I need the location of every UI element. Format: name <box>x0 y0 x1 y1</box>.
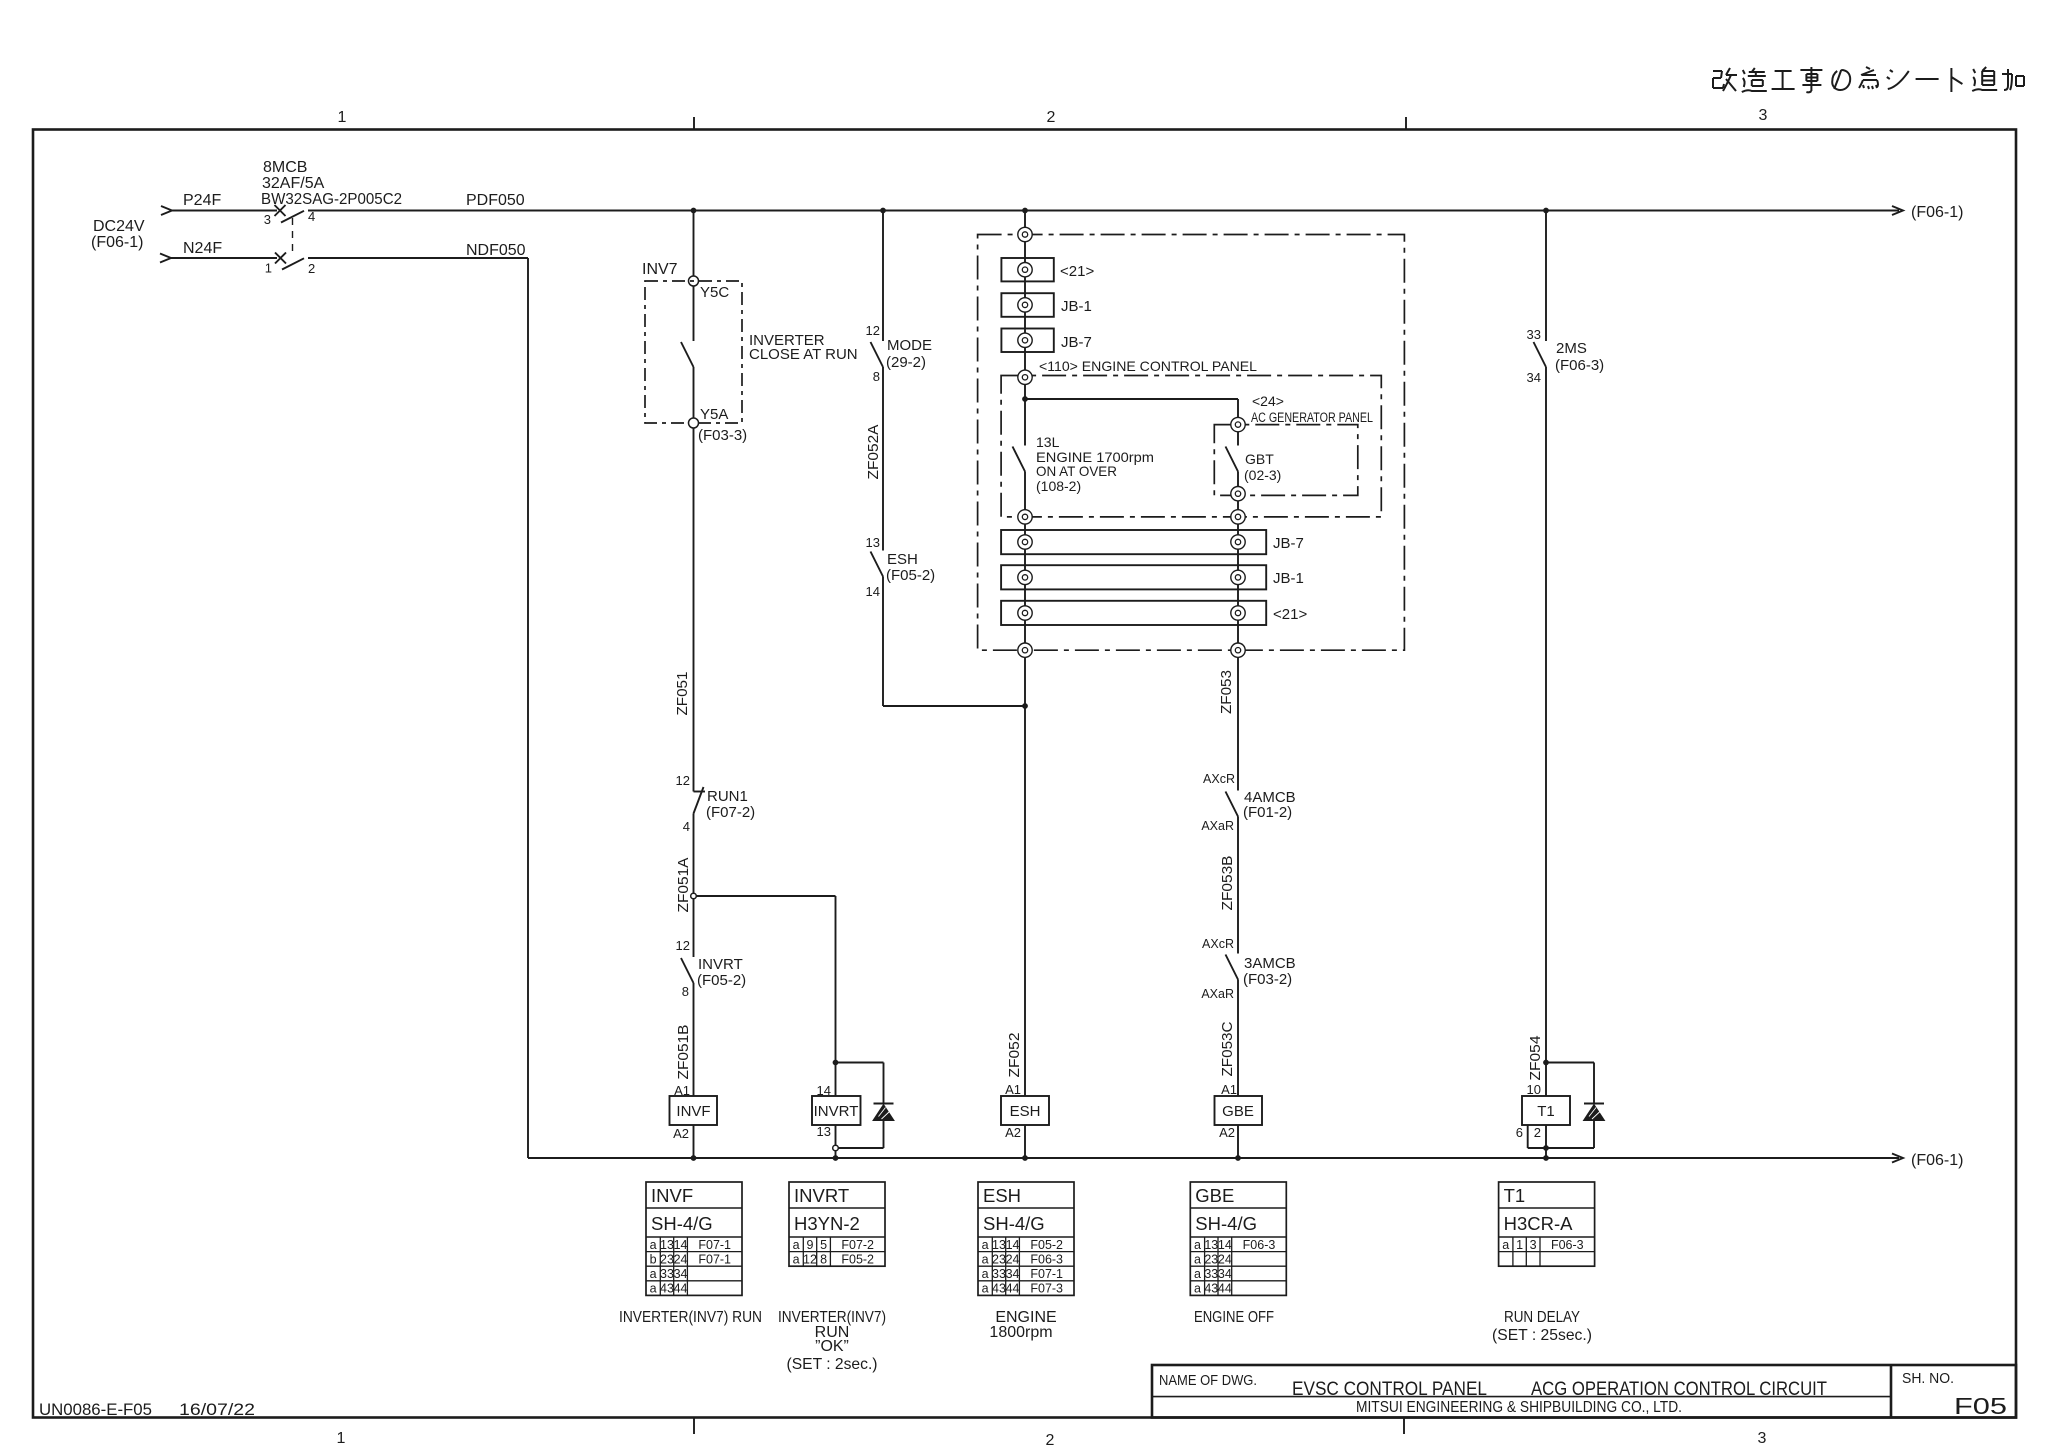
label INVERTER CLOSE AT RUN <box>749 332 858 363</box>
svg-text:ESH: ESH <box>983 1185 1021 1206</box>
table relay INVF <box>646 1182 742 1296</box>
net label N24F <box>183 240 222 257</box>
column label 1 bottom <box>337 1430 346 1447</box>
table relay INVRT <box>789 1182 885 1266</box>
wire ZF053B <box>1237 817 1239 954</box>
svg-text:(F06-1): (F06-1) <box>91 234 143 251</box>
terminal outer bottom left <box>1018 643 1032 657</box>
wire INVRT pin14 <box>835 1063 837 1097</box>
svg-text:INVRT: INVRT <box>794 1185 849 1206</box>
svg-text:INV7: INV7 <box>642 261 678 278</box>
svg-text:16/07/22: 16/07/22 <box>179 1400 255 1419</box>
svg-text:33: 33 <box>660 1267 674 1281</box>
svg-text:a: a <box>650 1282 657 1296</box>
svg-text:”OK”: ”OK” <box>815 1338 849 1355</box>
wire JB-7 to JB-1 long <box>1025 549 1238 570</box>
junction bottom bus x1238 <box>1235 1155 1241 1161</box>
svg-text:a: a <box>793 1238 800 1252</box>
junction bottom bus x1546 <box>1543 1155 1549 1161</box>
svg-text:ZF052: ZF052 <box>1006 1033 1023 1078</box>
wire PDF050 into panel <box>1024 211 1026 228</box>
wire ZF053 <box>1237 657 1239 790</box>
wire PDF050 to 2MS <box>1545 211 1547 342</box>
net label ZF051A <box>675 858 692 913</box>
title EVSC CONTROL PANEL <box>1292 1379 1487 1400</box>
net label NDF050 <box>466 242 526 259</box>
svg-text:a: a <box>1194 1282 1201 1296</box>
coil GBE pin A1 <box>1221 1082 1237 1097</box>
svg-text:2: 2 <box>1047 109 1056 126</box>
svg-text:a: a <box>650 1267 657 1281</box>
svg-text:(29-2): (29-2) <box>886 354 926 371</box>
net label ZF053B <box>1219 856 1236 911</box>
column label 3 bottom <box>1758 1430 1767 1447</box>
wire T1 pin2 to bus <box>1545 1125 1547 1158</box>
svg-text:10: 10 <box>1527 1082 1541 1097</box>
svg-text:24: 24 <box>1218 1252 1232 1266</box>
svg-text:GBE: GBE <box>1195 1185 1234 1206</box>
enclosure engine control panel dash-dot box <box>1001 376 1381 517</box>
wire ZF052 down <box>1024 657 1026 1096</box>
svg-text:34: 34 <box>1006 1267 1020 1281</box>
svg-text:3: 3 <box>264 212 271 227</box>
svg-text:(F06-1): (F06-1) <box>1911 204 1963 221</box>
svg-text:44: 44 <box>674 1282 688 1296</box>
coil T1 pin 2 <box>1534 1125 1541 1140</box>
svg-text:ZF051B: ZF051B <box>675 1025 692 1080</box>
table relay GBE <box>1190 1182 1286 1296</box>
title MITSUI ENGINEERING <box>1356 1399 1682 1416</box>
source label DC24V (F06-1) <box>91 218 145 251</box>
net label ZF052A <box>865 425 882 480</box>
column label 1 top <box>338 109 347 126</box>
svg-text:b: b <box>650 1252 657 1266</box>
net label ZF053C <box>1219 1021 1236 1076</box>
svg-text:a: a <box>982 1267 989 1281</box>
svg-text:NDF050: NDF050 <box>466 242 526 259</box>
wire N24F entry arrow <box>160 254 277 263</box>
svg-text:INVF: INVF <box>651 1185 693 1206</box>
svg-text:JB-1: JB-1 <box>1273 570 1304 587</box>
svg-text:INVERTER(INV7) RUN: INVERTER(INV7) RUN <box>619 1309 762 1326</box>
table relay T1 <box>1499 1182 1595 1266</box>
node ZF051A branch <box>691 893 697 899</box>
contact ESH (F05-2) self-hold NO <box>866 535 936 599</box>
wire diode branch INVRT top <box>836 1062 884 1064</box>
wire NDF050 segment <box>308 258 528 1158</box>
bottom bus arrow to (F06-1) <box>1892 1152 1963 1169</box>
svg-text:<24>: <24> <box>1252 393 1284 409</box>
junction 13L branch <box>1022 396 1028 402</box>
svg-text:GBT: GBT <box>1245 451 1274 467</box>
terminal box JB-1 top <box>1001 293 1091 317</box>
svg-text:ENGINE OFF: ENGINE OFF <box>1194 1309 1274 1326</box>
terminal engine panel bottom left <box>1018 510 1032 524</box>
svg-text:43: 43 <box>660 1282 674 1296</box>
svg-text:DC24V: DC24V <box>93 218 145 235</box>
svg-text:1800rpm: 1800rpm <box>989 1324 1052 1341</box>
diode T1 surge suppressor <box>1584 1063 1605 1149</box>
contact 3AMCB (F03-2) NO <box>1201 937 1295 1001</box>
contact MODE (29-2) NO <box>866 323 932 384</box>
svg-text:MITSUI ENGINEERING & SHIPBUILD: MITSUI ENGINEERING & SHIPBUILDING CO., L… <box>1356 1399 1682 1416</box>
svg-text:(SET : 2sec.): (SET : 2sec.) <box>787 1356 878 1373</box>
svg-text:34: 34 <box>1218 1267 1232 1281</box>
wire diode return T1 <box>1546 1147 1594 1149</box>
breaker 8MCB value labels <box>261 159 402 208</box>
wire ZF051A <box>693 818 695 896</box>
wire NDF050 bottom bus <box>528 1157 1899 1159</box>
svg-text:P24F: P24F <box>183 192 221 209</box>
svg-text:UN0086-E-F05: UN0086-E-F05 <box>39 1400 152 1419</box>
net label ZF051 <box>674 672 691 716</box>
table relay ESH <box>978 1182 1074 1296</box>
contact 13L NO <box>1013 399 1026 510</box>
svg-text:MODE: MODE <box>887 337 932 354</box>
junction T1 diode branch <box>1543 1060 1549 1066</box>
caption ENGINE 1800rpm <box>989 1309 1056 1341</box>
coil INVF pin A2 <box>673 1126 689 1141</box>
svg-text:NAME OF DWG.: NAME OF DWG. <box>1159 1372 1257 1389</box>
svg-text:34: 34 <box>674 1267 688 1281</box>
coil INVRT <box>812 1096 861 1125</box>
svg-text:23: 23 <box>1204 1252 1218 1266</box>
svg-text:3: 3 <box>1530 1238 1537 1252</box>
wire P24F entry arrow <box>161 206 277 215</box>
svg-text:T1: T1 <box>1504 1185 1526 1206</box>
svg-text:9: 9 <box>807 1238 814 1252</box>
svg-text:F06-3: F06-3 <box>1243 1238 1276 1252</box>
coil INVF pin A1 <box>674 1083 690 1098</box>
svg-text:13: 13 <box>660 1238 674 1252</box>
junction P24F x693 <box>691 208 697 214</box>
diode INVRT surge suppressor <box>873 1063 894 1149</box>
svg-text:ESH: ESH <box>1010 1103 1041 1120</box>
junction ESH rung <box>1022 703 1028 709</box>
svg-text:8MCB: 8MCB <box>263 159 307 176</box>
contact RUN1 (F07-2) NC <box>676 773 756 834</box>
svg-text:(108-2): (108-2) <box>1036 478 1081 494</box>
svg-text:33: 33 <box>1527 327 1541 342</box>
svg-text:AXaR: AXaR <box>1201 987 1234 1001</box>
wire GBE A2 to bus <box>1237 1125 1239 1158</box>
svg-text:JB-7: JB-7 <box>1061 334 1092 351</box>
svg-text:<21>: <21> <box>1060 263 1094 280</box>
terminal Y5C <box>689 276 730 301</box>
terminal box JB-7 top <box>1001 329 1091 353</box>
contact INVRT (F05-2) NO <box>676 899 747 999</box>
svg-text:3: 3 <box>1758 1430 1767 1447</box>
svg-text:(F03-2): (F03-2) <box>1243 971 1292 988</box>
column label 2 bottom <box>1046 1432 1055 1447</box>
terminal engine panel top <box>1018 370 1032 384</box>
svg-text:BW32SAG-2P005C2: BW32SAG-2P005C2 <box>261 191 402 208</box>
wire ZF051 <box>693 428 695 792</box>
svg-text:Y5A: Y5A <box>700 406 728 423</box>
junction bottom bus x693 <box>691 1155 697 1161</box>
svg-text:<21>: <21> <box>1273 606 1307 623</box>
svg-text:(F03-3): (F03-3) <box>698 427 747 444</box>
svg-text:33: 33 <box>1204 1267 1218 1281</box>
terminal AC gen bottom <box>1231 487 1245 501</box>
svg-text:F07-1: F07-1 <box>1030 1267 1063 1281</box>
terminal box JB-7 long <box>1001 530 1304 554</box>
net label ZF051B <box>675 1025 692 1080</box>
wire GBT to engine panel bottom <box>1237 501 1239 510</box>
wire T1 pin6 loop <box>1528 1125 1546 1148</box>
junction ZF051A-INVRT <box>833 1060 839 1066</box>
wire ESH contact to ESH coil rung <box>883 577 1025 707</box>
svg-text:F06-3: F06-3 <box>1551 1238 1584 1252</box>
svg-text:A1: A1 <box>1221 1082 1237 1097</box>
terminal panel top <box>1018 227 1032 241</box>
terminal box 21 long <box>1001 601 1307 625</box>
svg-text:a: a <box>793 1252 800 1266</box>
junction bottom bus x835 <box>833 1155 839 1161</box>
wire PDF050 top bus <box>308 210 1899 212</box>
svg-text:(SET : 25sec.): (SET : 25sec.) <box>1492 1327 1592 1344</box>
svg-text:F06-3: F06-3 <box>1030 1252 1063 1266</box>
title block frame <box>1152 1365 2016 1418</box>
title sheet number F05 <box>1954 1393 2007 1419</box>
svg-text:13: 13 <box>1204 1238 1218 1252</box>
wire panel to JB-7 long right <box>1237 524 1239 535</box>
svg-text:RUN1: RUN1 <box>707 788 748 805</box>
title NAME OF DWG. <box>1159 1372 1257 1389</box>
svg-text:23: 23 <box>992 1252 1006 1266</box>
svg-text:14: 14 <box>866 584 880 599</box>
breaker 8MCB pole 3-4 <box>264 205 315 252</box>
svg-text:(02-3): (02-3) <box>1244 467 1281 483</box>
wire PDF050 to MODE <box>882 211 884 342</box>
svg-text:Y5C: Y5C <box>700 284 729 301</box>
junction P24F x1025 <box>1022 208 1028 214</box>
svg-text:14: 14 <box>1218 1238 1232 1252</box>
caption RUN DELAY <box>1492 1309 1592 1344</box>
wire ZF052A <box>882 367 884 551</box>
coil T1 <box>1522 1096 1570 1125</box>
contact GBT (02-3) NO <box>1226 432 1239 487</box>
caption INVERTER(INV7) RUN OK <box>778 1309 886 1373</box>
svg-text:5: 5 <box>820 1238 827 1252</box>
svg-text:ACG OPERATION CONTROL CIRCUIT: ACG OPERATION CONTROL CIRCUIT <box>1531 1379 1827 1400</box>
svg-text:2: 2 <box>1534 1125 1541 1140</box>
svg-text:A1: A1 <box>1005 1082 1021 1097</box>
svg-text:a: a <box>982 1282 989 1296</box>
title SH. NO. <box>1902 1370 1954 1387</box>
svg-text:3: 3 <box>1759 107 1768 124</box>
svg-text:RUN DELAY: RUN DELAY <box>1504 1309 1580 1326</box>
svg-text:F07-2: F07-2 <box>841 1238 874 1252</box>
svg-text:6: 6 <box>1516 1125 1523 1140</box>
wire INVRT pin13 to bus <box>835 1125 837 1158</box>
coil INVF <box>670 1096 718 1125</box>
svg-text:AC GENERATOR PANEL: AC GENERATOR PANEL <box>1251 410 1373 425</box>
svg-text:a: a <box>650 1238 657 1252</box>
column tick top 2-3 <box>1405 117 1407 130</box>
caption ENGINE OFF <box>1194 1309 1274 1326</box>
svg-text:F07-1: F07-1 <box>698 1238 731 1252</box>
svg-text:A2: A2 <box>673 1126 689 1141</box>
terminal outer bottom right <box>1231 643 1245 657</box>
svg-text:INVF: INVF <box>676 1103 710 1120</box>
footer drawing number UN0086-E-F05 <box>39 1400 152 1419</box>
junction bottom bus x1025 <box>1022 1155 1028 1161</box>
terminal engine panel bottom right <box>1231 510 1245 524</box>
svg-text:ON AT OVER: ON AT OVER <box>1036 463 1117 479</box>
svg-text:ZF052A: ZF052A <box>865 425 882 480</box>
svg-text:a: a <box>1194 1252 1201 1266</box>
enclosure AC generator panel dash-dot box <box>1214 425 1358 496</box>
wire ZF051B <box>693 983 695 1096</box>
svg-text:4: 4 <box>683 819 690 834</box>
svg-text:F07-1: F07-1 <box>698 1252 731 1266</box>
svg-text:F07-3: F07-3 <box>1030 1282 1063 1296</box>
label AC generator panel <box>1251 393 1373 425</box>
terminal box JB-1 long <box>1001 565 1304 589</box>
svg-text:ZF054: ZF054 <box>1527 1036 1544 1081</box>
junction P24F x883 <box>880 208 886 214</box>
coil ESH pin A1 <box>1005 1082 1021 1097</box>
top bus arrow to (F06-1) <box>1892 204 1963 221</box>
label GBT <box>1244 451 1281 483</box>
net label PDF050 <box>466 192 525 209</box>
junction T1 bottom <box>1543 1145 1549 1151</box>
svg-text:H3YN-2: H3YN-2 <box>794 1213 860 1234</box>
column tick bottom 1-2 <box>693 1418 695 1435</box>
svg-text:a: a <box>1502 1238 1509 1252</box>
svg-text:43: 43 <box>1204 1282 1218 1296</box>
svg-text:ZF051A: ZF051A <box>675 858 692 913</box>
column label 3 top <box>1759 107 1768 124</box>
svg-text:13: 13 <box>817 1124 831 1139</box>
svg-text:A2: A2 <box>1219 1125 1235 1140</box>
svg-text:2MS: 2MS <box>1556 340 1587 357</box>
svg-text:CLOSE AT RUN: CLOSE AT RUN <box>749 346 858 363</box>
svg-text:23: 23 <box>660 1252 674 1266</box>
coil T1 pin 10 <box>1527 1082 1541 1097</box>
wire diode return INVRT <box>836 1147 884 1149</box>
svg-text:12: 12 <box>676 938 690 953</box>
caption INVERTER(INV7) RUN <box>619 1309 762 1326</box>
net label ZF054 <box>1527 1036 1544 1081</box>
coil ESH <box>1001 1096 1049 1125</box>
relay INV7 label <box>642 261 678 278</box>
wire 21 to outer bottom <box>1025 620 1238 643</box>
junction P24F x1546 <box>1543 208 1549 214</box>
column tick top 1-2 <box>693 117 695 130</box>
svg-text:1: 1 <box>1516 1238 1523 1252</box>
svg-text:(F07-2): (F07-2) <box>706 804 755 821</box>
svg-text:<110> ENGINE CONTROL PANEL: <110> ENGINE CONTROL PANEL <box>1039 358 1257 374</box>
svg-text:AXcR: AXcR <box>1203 772 1235 786</box>
svg-text:1: 1 <box>338 109 347 126</box>
terminal Y5A <box>689 406 748 444</box>
svg-text:(F05-2): (F05-2) <box>697 972 746 989</box>
wire to 13L junction <box>1024 385 1026 400</box>
column label 2 top <box>1047 109 1056 126</box>
wire to terminal 21 <box>1024 242 1026 263</box>
svg-text:13: 13 <box>992 1238 1006 1252</box>
svg-text:N24F: N24F <box>183 240 222 257</box>
svg-text:EVSC CONTROL PANEL: EVSC CONTROL PANEL <box>1292 1379 1487 1400</box>
wire T1 pin10 <box>1545 1063 1547 1097</box>
svg-text:8: 8 <box>820 1252 827 1266</box>
net label ZF053 <box>1218 670 1235 714</box>
net label P24F <box>183 192 221 209</box>
svg-text:13L: 13L <box>1036 434 1060 450</box>
svg-text:SH-4/G: SH-4/G <box>983 1213 1045 1234</box>
wire INVF A2 to bus <box>693 1125 695 1158</box>
svg-text:SH-4/G: SH-4/G <box>651 1213 713 1234</box>
svg-text:34: 34 <box>1527 370 1541 385</box>
svg-text:ESH: ESH <box>887 551 918 568</box>
wire ZF053C <box>1237 980 1239 1097</box>
svg-text:12: 12 <box>866 323 880 338</box>
enclosure engine-room outer dash-dot box <box>978 235 1405 651</box>
wire 21 to JB-1 <box>1024 277 1026 298</box>
svg-text:SH-4/G: SH-4/G <box>1195 1213 1257 1234</box>
contact 2MS (F06-3) NO <box>1527 327 1605 385</box>
svg-text:F05-2: F05-2 <box>1030 1238 1063 1252</box>
terminal AC gen top <box>1231 417 1245 431</box>
wire panel to JB-7 long left <box>1024 524 1026 535</box>
svg-text:a: a <box>1194 1267 1201 1281</box>
svg-text:14: 14 <box>674 1238 688 1252</box>
svg-text:F05-2: F05-2 <box>841 1252 874 1266</box>
wire ZF054 <box>1545 367 1547 1063</box>
svg-text:PDF050: PDF050 <box>466 192 525 209</box>
footer date 16/07/22 <box>179 1400 255 1419</box>
svg-text:3AMCB: 3AMCB <box>1244 955 1296 972</box>
enclosure INV7 dash-dot box <box>645 281 742 423</box>
svg-text:GBE: GBE <box>1222 1103 1254 1120</box>
svg-text:12: 12 <box>803 1252 817 1266</box>
svg-text:(F01-2): (F01-2) <box>1243 804 1292 821</box>
wire ZF051A branch to INVRT coil <box>696 896 835 1063</box>
wire ESH A2 to bus <box>1024 1125 1026 1158</box>
svg-text:INVRT: INVRT <box>814 1103 859 1120</box>
svg-text:8: 8 <box>682 984 689 999</box>
svg-text:33: 33 <box>992 1267 1006 1281</box>
breaker 8MCB pole 1-2 <box>265 253 315 277</box>
svg-text:SH. NO.: SH. NO. <box>1902 1370 1954 1387</box>
contact 4AMCB (F01-2) NO <box>1201 772 1295 833</box>
wire JB-1 to JB-7 <box>1024 312 1026 333</box>
svg-text:32AF/5A: 32AF/5A <box>262 175 325 192</box>
contact INV7 Y5C-Y5A <box>681 286 694 418</box>
wire diode branch T1 top <box>1546 1062 1594 1064</box>
svg-text:H3CR-A: H3CR-A <box>1504 1213 1574 1234</box>
column tick bottom 2-3 <box>1403 1418 1405 1435</box>
terminal box 21 top <box>1001 258 1094 281</box>
wire 13L rung to GBT branch <box>1025 399 1238 418</box>
svg-text:JB-7: JB-7 <box>1273 535 1304 552</box>
svg-text:ZF053: ZF053 <box>1218 670 1235 714</box>
revision note (Japanese) kaizo koji no tame sheet tsuika <box>1713 67 2024 92</box>
coil GBE <box>1215 1096 1263 1125</box>
svg-text:14: 14 <box>1006 1238 1020 1252</box>
wire PDF050 to Y5C <box>693 211 695 277</box>
svg-text:ZF051: ZF051 <box>674 672 691 716</box>
svg-text:JB-1: JB-1 <box>1061 298 1092 315</box>
svg-text:(F06-3): (F06-3) <box>1555 357 1604 374</box>
svg-text:a: a <box>982 1238 989 1252</box>
svg-text:24: 24 <box>674 1252 688 1266</box>
label 13L ENGINE 1700rpm <box>1036 434 1154 494</box>
svg-text:ZF053C: ZF053C <box>1219 1021 1236 1076</box>
label engine control panel <box>1039 358 1257 374</box>
